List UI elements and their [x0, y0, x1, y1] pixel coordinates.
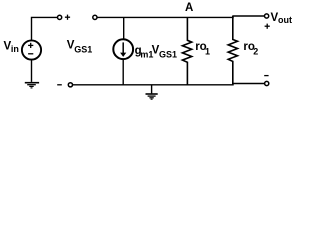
- wire from V_in bottom to ground: [31, 60, 33, 82]
- svg-text:in: in: [11, 44, 19, 54]
- label g_m1 V_GS1: [135, 45, 177, 60]
- label V_GS1: [67, 40, 93, 55]
- svg-text:out: out: [278, 15, 292, 25]
- svg-text:2: 2: [253, 46, 258, 56]
- dependent current source g_m1 V_GS1: [113, 39, 133, 59]
- node V_out terminal: [265, 14, 269, 18]
- label ro2: [243, 41, 258, 57]
- label ro1: [195, 41, 210, 57]
- svg-text:GS1: GS1: [74, 44, 92, 54]
- svg-text:1: 1: [205, 46, 210, 56]
- wire from current source to bottom rail: [122, 59, 124, 85]
- ground (left, under V_in): [25, 83, 39, 88]
- label V_out: [271, 12, 293, 25]
- ground (middle, under bottom rail): [146, 85, 158, 99]
- minus sign at bottom-right port: [264, 75, 268, 77]
- label V_in: [4, 40, 19, 54]
- resistor ro2: [228, 16, 237, 84]
- wire from V_in top to input terminal: [32, 17, 58, 40]
- svg-text:A: A: [185, 2, 193, 14]
- minus sign at bottom-left port: [57, 84, 62, 86]
- voltage source V_in: [22, 40, 41, 59]
- top rail wire: [97, 16, 264, 17]
- plus sign at V_out: [265, 24, 270, 29]
- svg-text:GS1: GS1: [159, 49, 177, 59]
- node bottom-left terminal: [68, 83, 72, 87]
- resistor ro1: [182, 17, 191, 84]
- node input + terminal: [58, 15, 62, 19]
- wire from top rail to current source: [123, 17, 125, 39]
- node bottom-right terminal: [265, 81, 269, 85]
- bottom rail wire: [73, 84, 265, 85]
- node top terminal of dependent-source branch: [93, 15, 97, 19]
- plus sign at input top: [65, 15, 70, 20]
